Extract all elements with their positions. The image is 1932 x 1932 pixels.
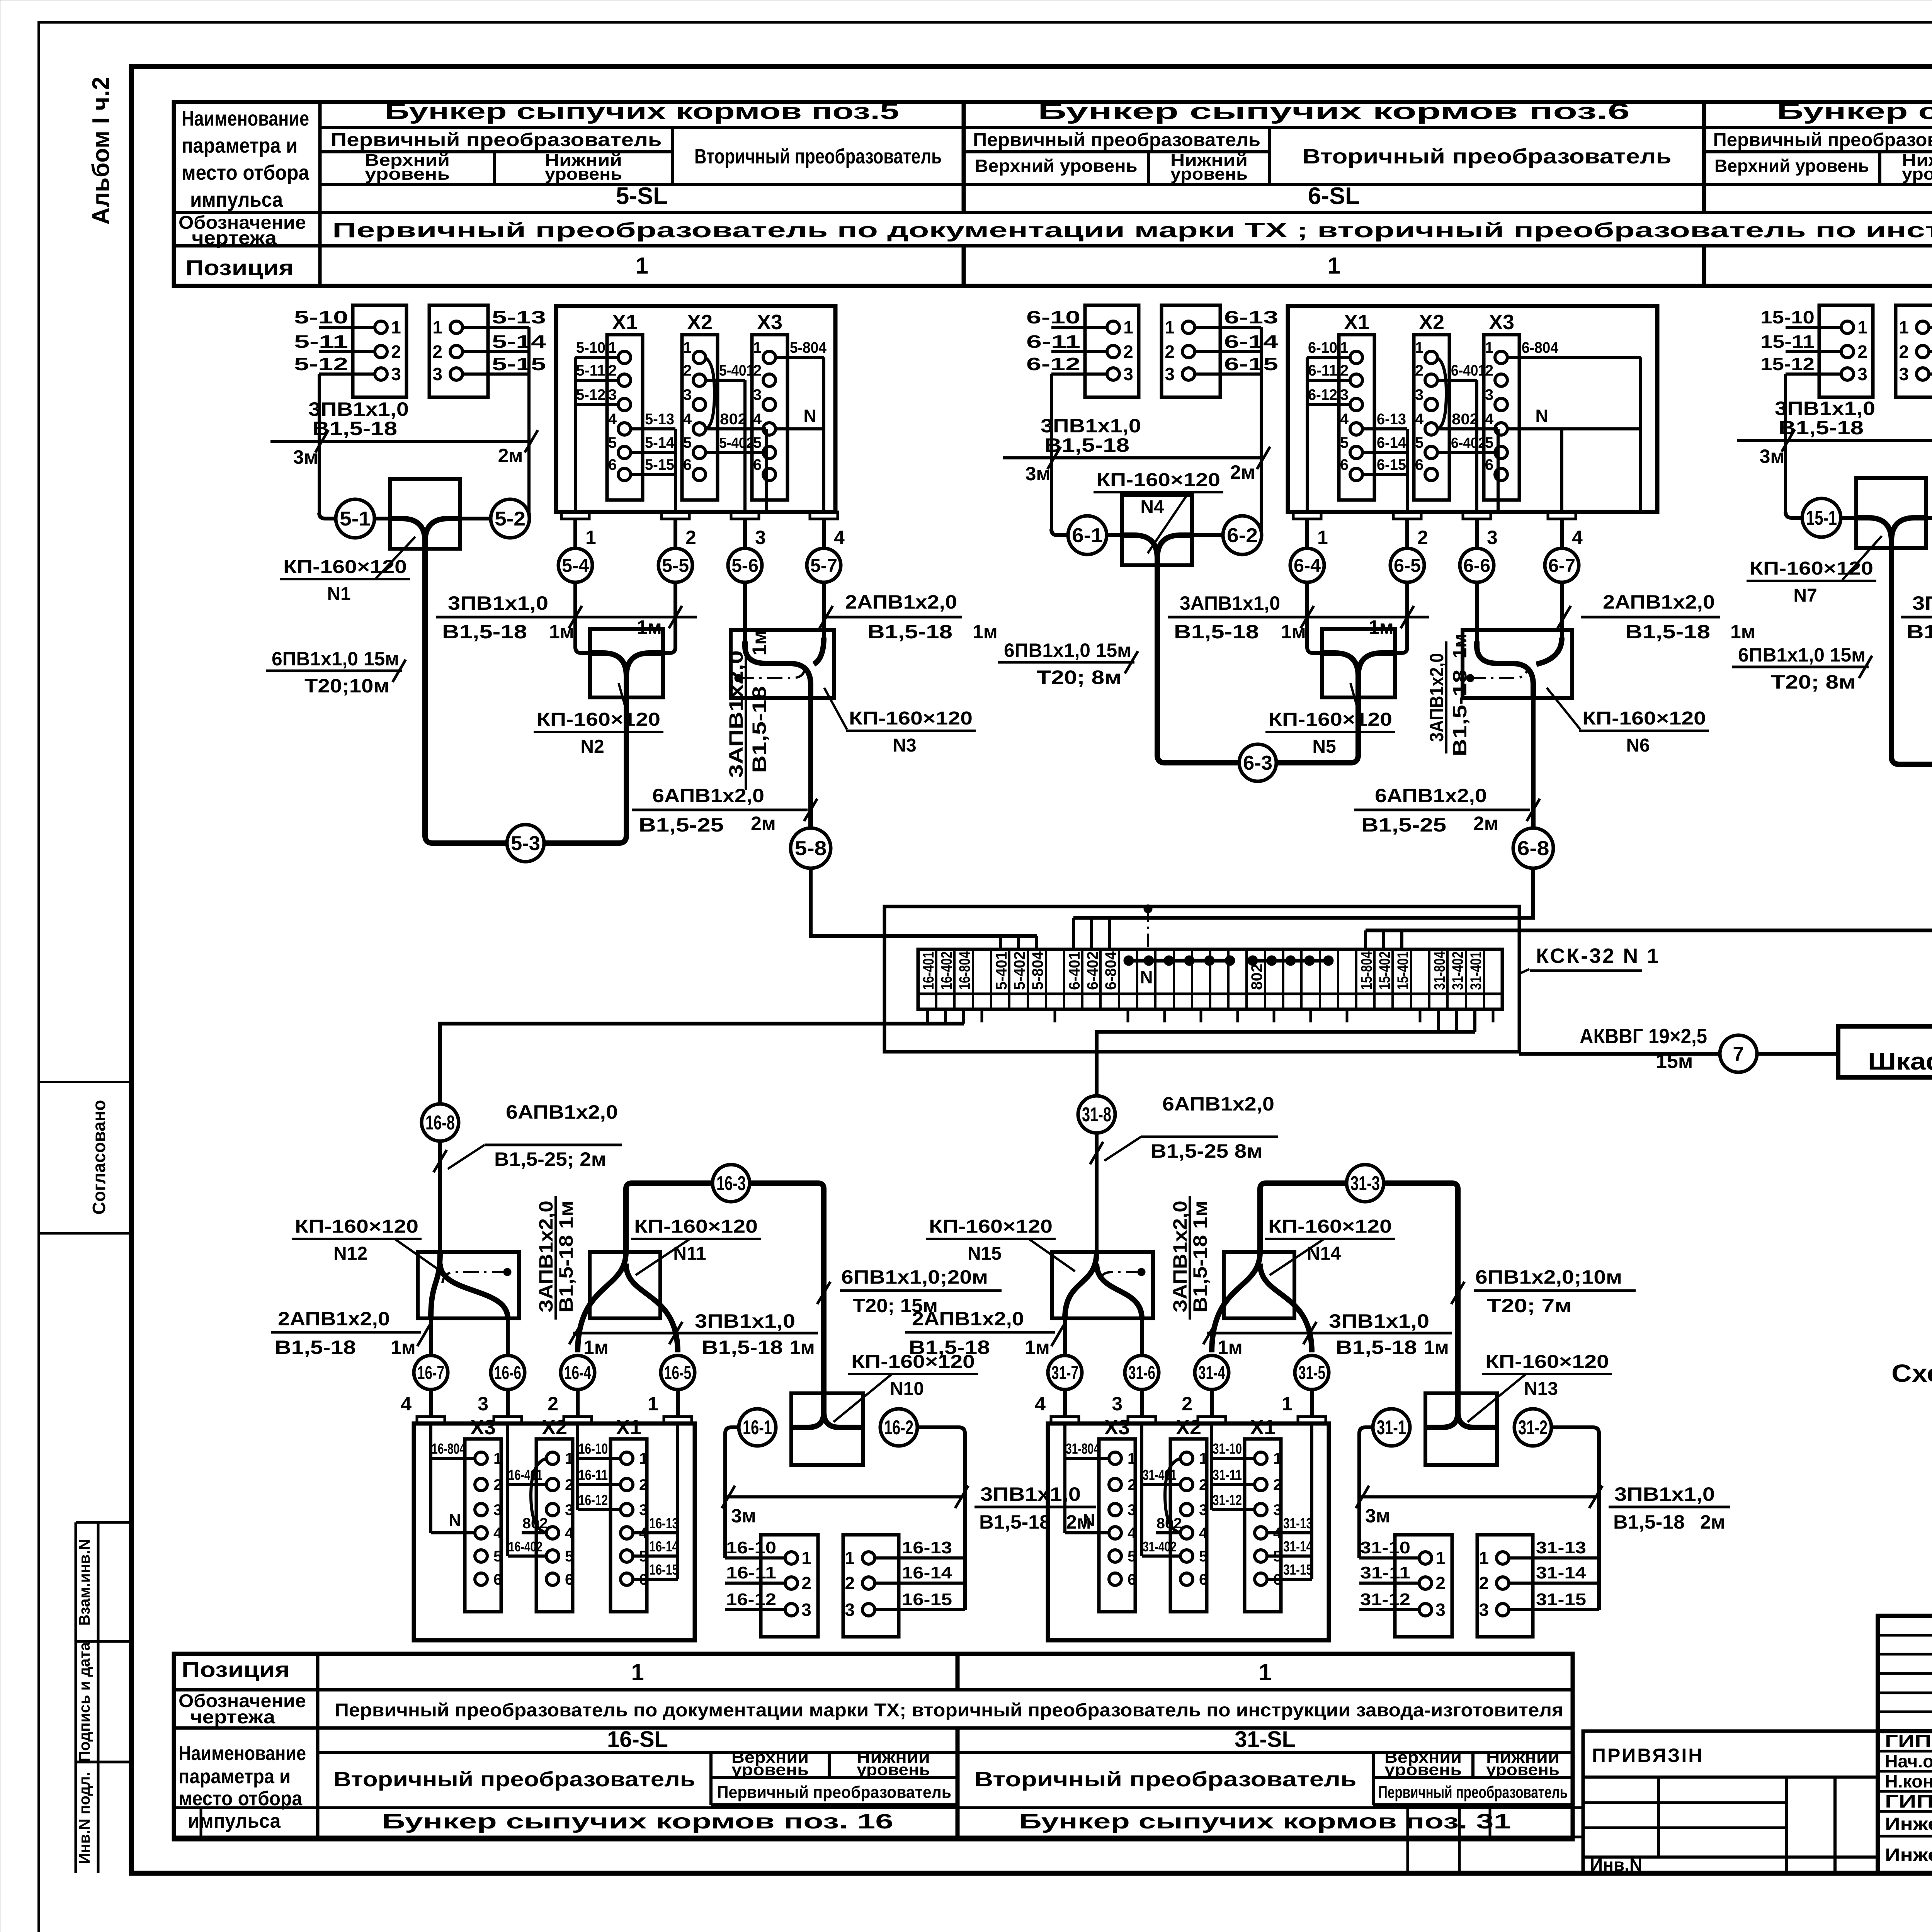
strip X1 31 pin 5 bbox=[1255, 1550, 1267, 1562]
terminal 5-12 pin 3 bbox=[319, 372, 375, 376]
strip X1 16 pin 5 bbox=[621, 1550, 633, 1562]
svg-text:КП-160×120: КП-160×120 bbox=[1485, 1352, 1609, 1372]
svg-text:АКВВГ 19×2,5: АКВВГ 19×2,5 bbox=[1580, 1025, 1707, 1048]
svg-text:2АПВ1x2,0: 2АПВ1x2,0 bbox=[845, 591, 957, 613]
svg-text:3ПВ1x1,0: 3ПВ1x1,0 bbox=[1614, 1483, 1715, 1505]
svg-text:2: 2 bbox=[1340, 362, 1349, 379]
wire 6-3 right bbox=[1276, 760, 1351, 765]
svg-text:802: 802 bbox=[1156, 1515, 1182, 1532]
svg-text:В1,5-18: В1,5-18 bbox=[702, 1337, 783, 1358]
svg-text:5: 5 bbox=[1485, 434, 1493, 451]
svg-text:6-11: 6-11 bbox=[1026, 332, 1080, 352]
terminal 15-14 pin 2 bbox=[1929, 350, 1932, 353]
svg-text:6АПВ1x2,0: 6АПВ1x2,0 bbox=[506, 1101, 618, 1123]
bottom table secondary transducer cell поз. 31 bbox=[1372, 1752, 1375, 1805]
svg-text:N7: N7 bbox=[1793, 585, 1817, 606]
wire 16-6 segment bbox=[506, 1318, 510, 1355]
terminal strip X1 6 bbox=[1339, 335, 1374, 500]
horizontal sensor wire 6 bbox=[1003, 456, 1261, 459]
svg-text:В1,5-18: В1,5-18 bbox=[1174, 621, 1259, 643]
svg-text:6АПВ1x2,0: 6АПВ1x2,0 bbox=[1375, 785, 1487, 806]
svg-text:2: 2 bbox=[1417, 527, 1428, 548]
strip X3 5 pin 5 bbox=[763, 446, 776, 459]
wire N from X3 pin4 5 bbox=[776, 427, 824, 430]
strip X2 31 pin 2 bbox=[1180, 1478, 1193, 1491]
terminal strip X3 5 bbox=[752, 335, 787, 500]
svg-text:уровень: уровень bbox=[731, 1760, 809, 1779]
svg-text:16-15: 16-15 bbox=[902, 1590, 952, 1609]
svg-text:X2: X2 bbox=[687, 311, 713, 334]
svg-text:3ПВ1x1,0: 3ПВ1x1,0 bbox=[1329, 1310, 1429, 1332]
svg-text:Инв.N: Инв.N bbox=[1590, 1855, 1642, 1875]
cable tee in KP N10 bbox=[791, 1393, 824, 1427]
svg-text:6ПВ1x1,0;20м: 6ПВ1x1,0;20м bbox=[841, 1266, 988, 1288]
strip X1 16 pin 3 bbox=[621, 1503, 633, 1516]
strip X2 5 pin 5 bbox=[693, 446, 706, 459]
svg-text:5-15: 5-15 bbox=[645, 456, 674, 473]
svg-text:6-3: 6-3 bbox=[1243, 752, 1272, 774]
svg-text:2: 2 bbox=[565, 1476, 573, 1493]
svg-text:6-401: 6-401 bbox=[1066, 951, 1083, 990]
svg-text:В1,5-18: В1,5-18 bbox=[1336, 1337, 1417, 1358]
svg-text:16-402: 16-402 bbox=[509, 1539, 543, 1554]
strip X1 31 pin 2 bbox=[1255, 1478, 1267, 1491]
KCK-32 dash-dot ground lead bbox=[1147, 909, 1149, 949]
jumper X2 pin1-pin4 16 bbox=[531, 1458, 547, 1533]
svg-text:31-401: 31-401 bbox=[1468, 951, 1485, 990]
terminal 15-13 pin 1 bbox=[1929, 326, 1932, 329]
wire 5-402 from X2 pin5 bbox=[706, 451, 766, 454]
svg-text:Т20; 8м: Т20; 8м bbox=[1771, 671, 1856, 693]
wire 5-2 to box bbox=[460, 517, 492, 520]
svg-text:2: 2 bbox=[1415, 362, 1423, 379]
svg-text:4: 4 bbox=[493, 1525, 502, 1542]
cable 16-8 bus from KCK-32 bbox=[926, 1009, 929, 1024]
terminal 5-11 pin 2 bbox=[319, 350, 375, 353]
svg-text:2: 2 bbox=[1857, 342, 1867, 362]
svg-text:N15: N15 bbox=[968, 1243, 1002, 1264]
svg-text:4: 4 bbox=[1340, 411, 1349, 428]
svg-text:6-SL: 6-SL bbox=[1308, 183, 1360, 209]
svg-text:1: 1 bbox=[631, 1659, 644, 1685]
svg-text:X3: X3 bbox=[1104, 1416, 1130, 1439]
strip X1 16 pin 4 bbox=[621, 1527, 633, 1539]
svg-text:2: 2 bbox=[493, 1476, 502, 1493]
strip X1 31 pin 1 bbox=[1255, 1452, 1267, 1464]
sensor terminal box 6-13..6-15 bbox=[1162, 305, 1220, 397]
svg-text:КП-160×120: КП-160×120 bbox=[283, 557, 407, 577]
svg-text:N5: N5 bbox=[1312, 736, 1336, 757]
svg-text:2: 2 bbox=[1199, 1476, 1207, 1493]
strip X2 6 pin 3 bbox=[1425, 398, 1437, 411]
cable 5-8 to KCK-32 bbox=[811, 867, 1037, 936]
terminal 6-12 pin 3 bbox=[1051, 372, 1107, 376]
svg-text:В1,5-18: В1,5-18 bbox=[979, 1511, 1051, 1533]
svg-text:ГИП: ГИП bbox=[1885, 1731, 1931, 1751]
svg-text:3: 3 bbox=[1165, 364, 1175, 384]
svg-text:4: 4 bbox=[834, 527, 845, 548]
wire 31-2 right bbox=[1551, 1425, 1593, 1429]
dash-dot mark in KP N12 bbox=[442, 1272, 507, 1283]
top table primary transducer cell поз.5 bbox=[320, 150, 672, 153]
strip X2 16 pin 2 bbox=[546, 1478, 559, 1491]
circle 5-1 bbox=[336, 499, 374, 538]
svg-text:31-10: 31-10 bbox=[1213, 1441, 1242, 1457]
svg-text:31-11: 31-11 bbox=[1360, 1563, 1410, 1582]
output tab 4 6 bbox=[1548, 512, 1576, 519]
strip X1 31 pin 3 bbox=[1255, 1503, 1267, 1516]
strip X1 16 pin 2 bbox=[621, 1478, 633, 1491]
svg-text:31-402: 31-402 bbox=[1143, 1539, 1177, 1554]
svg-text:31-15: 31-15 bbox=[1536, 1590, 1586, 1609]
strip X2 16 pin 4 bbox=[546, 1527, 559, 1539]
svg-text:1м: 1м bbox=[973, 621, 998, 643]
svg-text:6: 6 bbox=[565, 1571, 573, 1588]
svg-text:3: 3 bbox=[639, 1502, 648, 1519]
svg-text:3: 3 bbox=[1487, 527, 1498, 548]
svg-text:5-14: 5-14 bbox=[492, 332, 546, 352]
svg-text:2: 2 bbox=[845, 1573, 855, 1593]
output tab 3 6 bbox=[1463, 512, 1491, 519]
circle 31-7 bbox=[1048, 1355, 1082, 1389]
wire 6-401 from X2 pin2 bbox=[1437, 379, 1477, 382]
output tab 4 5 bbox=[810, 512, 838, 519]
circle 6-5 bbox=[1390, 548, 1424, 582]
svg-text:В1,5-18: В1,5-18 bbox=[1449, 670, 1471, 757]
svg-text:1м: 1м bbox=[391, 1337, 416, 1358]
svg-text:4: 4 bbox=[1035, 1393, 1046, 1415]
circle 6-1 bbox=[1068, 516, 1107, 554]
svg-text:2: 2 bbox=[1165, 342, 1175, 362]
svg-text:31-14: 31-14 bbox=[1536, 1563, 1587, 1582]
wire 15-1 left bbox=[1784, 440, 1787, 512]
output tab 2 31 bbox=[1198, 1417, 1226, 1423]
svg-text:Нач.отд.: Нач.отд. bbox=[1885, 1751, 1932, 1771]
svg-text:15-10: 15-10 bbox=[1760, 307, 1815, 327]
terminal 15-12 pin 3 bbox=[1786, 372, 1841, 376]
svg-text:6-12: 6-12 bbox=[1308, 386, 1337, 403]
svg-text:4: 4 bbox=[1415, 411, 1424, 428]
svg-text:2: 2 bbox=[608, 362, 617, 379]
svg-text:1м: 1м bbox=[1369, 616, 1394, 638]
wire 5-4 down bbox=[573, 582, 577, 647]
junction box KP N2 bbox=[590, 629, 663, 697]
output tab 4 16 bbox=[417, 1417, 445, 1423]
terminal 16-13 pin 1 bbox=[875, 1556, 965, 1560]
junction box KP N3 bbox=[731, 630, 834, 698]
wire 5-401 from X2 pin2 bbox=[706, 379, 745, 382]
circle 31-2 bbox=[1514, 1409, 1551, 1446]
strip X3 5 pin 1 bbox=[763, 351, 776, 364]
svg-text:1м: 1м bbox=[1218, 1337, 1243, 1358]
margin line below soglasovano bbox=[39, 1232, 131, 1235]
svg-text:5-10: 5-10 bbox=[294, 307, 348, 327]
circle 31-8 bbox=[1078, 1096, 1115, 1133]
svg-text:3: 3 bbox=[432, 364, 442, 384]
svg-text:6-15: 6-15 bbox=[1224, 354, 1278, 374]
output tab 1 31 bbox=[1298, 1417, 1326, 1423]
svg-text:16-15: 16-15 bbox=[649, 1562, 679, 1578]
sensor terminal box 5-13..5-15 bbox=[429, 305, 488, 397]
wire 6-3 left bbox=[1164, 760, 1239, 765]
svg-text:X3: X3 bbox=[470, 1416, 496, 1439]
svg-text:1м: 1м bbox=[1025, 1337, 1050, 1358]
svg-text:Т20; 7м: Т20; 7м bbox=[1487, 1295, 1572, 1316]
wire 5-1 to box bbox=[374, 517, 390, 520]
bottom table secondary transducer cell поз. 16 bbox=[709, 1752, 713, 1805]
strip X1 16 pin 1 bbox=[621, 1452, 633, 1464]
bottom table level cells поз. 31 bbox=[1373, 1776, 1573, 1779]
svg-text:1: 1 bbox=[683, 339, 692, 356]
strip X3 5 pin 3 bbox=[763, 398, 776, 411]
svg-text:Первичный преобразователь: Первичный преобразователь bbox=[1378, 1783, 1568, 1802]
svg-text:Вторичный преобразователь: Вторичный преобразователь bbox=[333, 1768, 695, 1791]
wire 31-4 segment bbox=[1210, 1389, 1214, 1417]
wire 802 from X2 pin4 6 bbox=[1437, 427, 1498, 430]
svg-text:В1,5-18: В1,5-18 bbox=[867, 621, 952, 643]
svg-text:6ПВ1x2,0;10м: 6ПВ1x2,0;10м bbox=[1475, 1266, 1622, 1288]
terminal 5-10 pin 1 bbox=[319, 326, 375, 329]
terminal 16-12 pin 3 bbox=[725, 1608, 785, 1611]
terminal 5-14 pin 2 bbox=[463, 350, 529, 353]
svg-text:N2: N2 bbox=[580, 736, 604, 757]
svg-text:КП-160×120: КП-160×120 bbox=[537, 709, 660, 730]
svg-text:X2: X2 bbox=[1419, 311, 1444, 334]
svg-text:Первичный преобразователь: Первичный преобразователь bbox=[973, 130, 1260, 150]
svg-text:1: 1 bbox=[608, 339, 617, 356]
strip X2 5 pin 3 bbox=[693, 398, 706, 411]
strip X1 5 pin 1 bbox=[618, 351, 631, 364]
secondary transducer box 31 bbox=[1048, 1423, 1329, 1640]
svg-text:31-3: 31-3 bbox=[1350, 1172, 1380, 1195]
svg-text:31-8: 31-8 bbox=[1082, 1104, 1111, 1126]
wire bundle 6-10..12 into X1 bbox=[1307, 356, 1350, 359]
svg-text:КП-160×120: КП-160×120 bbox=[929, 1216, 1053, 1237]
wire output 2 5 bbox=[673, 519, 677, 549]
svg-text:5-804: 5-804 bbox=[1029, 951, 1046, 990]
svg-text:5-3: 5-3 bbox=[511, 832, 540, 855]
jumper X2 pin1-pin4 6 bbox=[1436, 357, 1446, 429]
wire 31-401 into X2 pin2 bbox=[1140, 1423, 1143, 1556]
secondary transducer box 16 bbox=[414, 1423, 695, 1640]
svg-text:6-804: 6-804 bbox=[1522, 339, 1559, 356]
svg-text:15-12: 15-12 bbox=[1760, 354, 1815, 374]
wire 6-2 to box bbox=[1192, 533, 1224, 537]
cable tee in KP N14 bbox=[1212, 1252, 1260, 1352]
svg-text:X1: X1 bbox=[616, 1416, 641, 1439]
strip X2 6 pin 4 bbox=[1425, 423, 1437, 435]
cable tee in KP N4 bbox=[1122, 535, 1157, 757]
svg-text:6-402: 6-402 bbox=[1451, 435, 1486, 451]
svg-text:7: 7 bbox=[1733, 1043, 1744, 1065]
strip X2 16 pin 6 bbox=[546, 1573, 559, 1585]
svg-text:31-12: 31-12 bbox=[1213, 1492, 1242, 1509]
strip X2 6 pin 2 bbox=[1425, 374, 1437, 386]
circle 5-3 bbox=[507, 825, 544, 862]
svg-text:2: 2 bbox=[753, 362, 762, 379]
svg-text:3: 3 bbox=[753, 386, 762, 403]
cable tee in KP N6 bbox=[1477, 641, 1533, 698]
svg-text:2м: 2м bbox=[1700, 1511, 1725, 1533]
svg-text:3м: 3м bbox=[293, 446, 318, 468]
wire 15-3 left bbox=[1898, 762, 1932, 767]
svg-text:1: 1 bbox=[639, 1450, 648, 1467]
cable tee in KP N15 bbox=[1065, 1252, 1097, 1318]
svg-text:2м: 2м bbox=[1473, 813, 1498, 834]
circle 16-2 bbox=[880, 1409, 917, 1446]
top table level cells поз. 15 bbox=[1878, 152, 1881, 184]
svg-text:2: 2 bbox=[683, 362, 692, 379]
circle 16-3 bbox=[713, 1165, 750, 1202]
svg-text:16-11: 16-11 bbox=[726, 1563, 776, 1582]
circle 5-2 bbox=[491, 499, 529, 538]
svg-text:3: 3 bbox=[493, 1502, 502, 1519]
svg-text:16-13: 16-13 bbox=[649, 1515, 679, 1532]
terminal strip X1 16 bbox=[611, 1439, 647, 1612]
svg-text:Бункер сыпучих кормов поз. 16: Бункер сыпучих кормов поз. 16 bbox=[382, 1810, 893, 1833]
wire 6-2 right bbox=[1260, 458, 1263, 529]
svg-text:16-11: 16-11 bbox=[578, 1467, 608, 1483]
wire 5-6 down bbox=[743, 582, 747, 645]
wire N into X3 pin4 31 bbox=[1065, 1531, 1109, 1534]
wire 31-1 left bbox=[1365, 1425, 1373, 1429]
svg-text:3ПВ1x1,0: 3ПВ1x1,0 bbox=[308, 398, 409, 420]
svg-text:3: 3 bbox=[1435, 1600, 1446, 1620]
circle 5-6 bbox=[728, 548, 762, 582]
svg-text:16-804: 16-804 bbox=[432, 1441, 466, 1457]
wire drop left 6 bbox=[1050, 374, 1053, 458]
svg-text:5-12: 5-12 bbox=[294, 354, 348, 374]
svg-text:уровень: уровень bbox=[365, 165, 450, 184]
circle 6-3 bbox=[1239, 744, 1276, 781]
terminal 15-15 pin 3 bbox=[1929, 372, 1932, 376]
strip X2 5 pin 1 bbox=[693, 351, 706, 364]
circle 31-1 bbox=[1373, 1409, 1410, 1446]
svg-text:В1,5-18: В1,5-18 bbox=[442, 621, 527, 643]
svg-text:16-5: 16-5 bbox=[664, 1363, 691, 1383]
svg-text:16-401: 16-401 bbox=[509, 1467, 543, 1483]
circle 6-6 bbox=[1460, 548, 1494, 582]
wire 16-1 left bbox=[731, 1425, 739, 1429]
wire 16-7 segment bbox=[429, 1318, 433, 1355]
svg-text:Бункер сыпучих кормов поз. 15: Бункер сыпучих кормов поз. 15 bbox=[1777, 99, 1932, 124]
junction box KP N14 bbox=[1224, 1252, 1294, 1318]
strip X1 31 pin 6 bbox=[1255, 1573, 1267, 1585]
svg-text:Инв.N подл.: Инв.N подл. bbox=[76, 1772, 93, 1864]
svg-text:1: 1 bbox=[493, 1450, 502, 1467]
svg-text:1: 1 bbox=[1123, 317, 1133, 337]
svg-text:5-401: 5-401 bbox=[719, 362, 754, 379]
svg-text:31-14: 31-14 bbox=[1283, 1539, 1313, 1555]
svg-text:16-13: 16-13 bbox=[902, 1538, 952, 1557]
svg-text:5-10: 5-10 bbox=[576, 339, 605, 356]
top table primary transducer cell поз. 15 bbox=[1704, 150, 1932, 153]
svg-text:Бункер сыпучих кормов поз. 31: Бункер сыпучих кормов поз. 31 bbox=[1019, 1810, 1511, 1833]
svg-text:16-7: 16-7 bbox=[417, 1363, 444, 1383]
dash-dot mark in KP N6 bbox=[1470, 667, 1527, 678]
svg-text:2м: 2м bbox=[498, 445, 523, 466]
sensor terminal box 16-13..16-15 bbox=[843, 1535, 899, 1637]
junction box KP N7 bbox=[1856, 478, 1926, 548]
strip X3 6 pin 1 bbox=[1495, 351, 1507, 364]
svg-text:уровень: уровень bbox=[1902, 165, 1932, 184]
output tab 2 16 bbox=[564, 1417, 592, 1423]
svg-text:место отбора: место отбора bbox=[182, 161, 310, 184]
junction box KP N11 bbox=[590, 1252, 660, 1318]
svg-text:31-1: 31-1 bbox=[1377, 1417, 1406, 1439]
svg-text:Инжен.: Инжен. bbox=[1885, 1845, 1932, 1865]
circle 6-2 bbox=[1223, 516, 1262, 554]
wire cable 5-3 row bbox=[425, 835, 471, 843]
svg-text:2: 2 bbox=[639, 1476, 648, 1493]
terminal strip X2 16 bbox=[536, 1439, 573, 1612]
terminal strip X2 31 bbox=[1170, 1439, 1207, 1612]
wire bundle 16-13..15 from X1 bbox=[676, 1423, 679, 1579]
svg-text:В1,5-25 8м: В1,5-25 8м bbox=[1151, 1140, 1263, 1162]
svg-text:1: 1 bbox=[1857, 317, 1867, 337]
svg-text:16-1: 16-1 bbox=[743, 1417, 772, 1439]
title block upper rows bbox=[1878, 1634, 1932, 1637]
svg-text:В1,5-18: В1,5-18 bbox=[748, 686, 770, 773]
svg-text:ГИП А: ГИП А bbox=[1885, 1791, 1932, 1811]
svg-text:КП-160×120: КП-160×120 bbox=[849, 708, 973, 729]
wire to cabinet bbox=[1757, 1052, 1838, 1056]
svg-text:31-13: 31-13 bbox=[1283, 1515, 1313, 1532]
circle 6-4 bbox=[1290, 548, 1324, 582]
sensor terminal box 31-13..31-15 bbox=[1477, 1535, 1533, 1637]
wire drop left 15 bbox=[1784, 374, 1787, 440]
svg-text:802: 802 bbox=[522, 1515, 548, 1532]
strip X2 31 pin 3 bbox=[1180, 1503, 1193, 1516]
wire output 4 5 bbox=[822, 519, 826, 549]
bottom table label column line bbox=[316, 1654, 320, 1839]
svg-text:6-10: 6-10 bbox=[1308, 339, 1337, 356]
strip X1 31 pin 4 bbox=[1255, 1527, 1267, 1539]
svg-text:6-7: 6-7 bbox=[1548, 556, 1575, 576]
wire drop right 5 bbox=[527, 327, 531, 441]
svg-text:2: 2 bbox=[1899, 342, 1909, 362]
wire 5-8 drop bbox=[808, 698, 813, 830]
svg-text:15-402: 15-402 bbox=[1376, 951, 1393, 990]
strip X3 6 pin 4 bbox=[1495, 423, 1507, 435]
secondary transducer box 5 bbox=[556, 306, 835, 512]
svg-text:1: 1 bbox=[1899, 317, 1909, 337]
strip X3 6 pin 3 bbox=[1495, 398, 1507, 411]
svg-text:31-401: 31-401 bbox=[1143, 1467, 1177, 1483]
svg-text:3ПВ1x1,0: 3ПВ1x1,0 bbox=[1912, 592, 1932, 614]
svg-text:6ПВ1x1,0 15м: 6ПВ1x1,0 15м bbox=[1738, 644, 1866, 666]
svg-text:5-8: 5-8 bbox=[795, 837, 827, 860]
svg-text:1: 1 bbox=[391, 317, 401, 337]
svg-text:15-1: 15-1 bbox=[1806, 507, 1837, 529]
bottom table sl row поз. 31 bbox=[957, 1751, 1573, 1754]
strip X1 6 pin 1 bbox=[1350, 351, 1362, 364]
wire 3m horizontal 16 bbox=[725, 1495, 965, 1498]
svg-text:КП-160×120: КП-160×120 bbox=[1750, 558, 1873, 579]
KCK-32 jumper bus 1 bbox=[1126, 959, 1232, 963]
svg-text:31-804: 31-804 bbox=[1066, 1441, 1100, 1457]
wire 16-402 into X2 pin5 bbox=[508, 1554, 546, 1558]
svg-text:N10: N10 bbox=[890, 1379, 924, 1399]
svg-text:X1: X1 bbox=[612, 311, 638, 334]
svg-text:3: 3 bbox=[1128, 1502, 1136, 1519]
svg-text:6: 6 bbox=[1340, 456, 1349, 473]
svg-text:5-402: 5-402 bbox=[719, 435, 754, 451]
svg-text:31-11: 31-11 bbox=[1213, 1467, 1242, 1483]
junction box KP N6 bbox=[1463, 630, 1572, 698]
circle 16-6 bbox=[491, 1355, 525, 1389]
svg-text:802: 802 bbox=[720, 411, 747, 428]
